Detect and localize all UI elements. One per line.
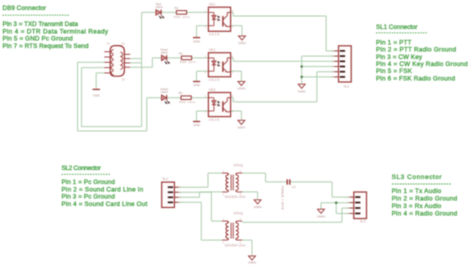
svg-text:LED2: LED2 — [156, 5, 164, 9]
svg-text:Pin 3 = Rx Audio: Pin 3 = Rx Audio — [392, 203, 442, 210]
svg-text:X1: X1 — [107, 42, 111, 46]
wire DTR-CTS loopback — [82, 63, 142, 127]
supply GND5 below TR2 — [248, 256, 256, 265]
svg-text:SL2: SL2 — [162, 177, 168, 181]
wire SL2 pin4 to TR2 bottom — [175, 202, 222, 240]
svg-text:600/600 ohm: 600/600 ohm — [225, 243, 246, 247]
svg-text:R1: R1 — [179, 51, 183, 55]
wire OK2 collector to SL1 pin3 — [231, 58, 339, 61]
LED LED3 green row3 — [160, 87, 169, 103]
ground GND below OK3 — [193, 122, 201, 128]
supply GND2 radio ground SL1 — [298, 84, 306, 93]
svg-text:GND3: GND3 — [238, 87, 246, 91]
supply GND4 near SL3 — [317, 209, 325, 218]
wire C1 to SL3 pin1 — [290, 182, 353, 197]
net label text block SL3 — [392, 174, 458, 217]
svg-text:Pin 4 = CW Key Radio Ground: Pin 4 = CW Key Radio Ground — [376, 61, 468, 68]
svg-text:SL1: SL1 — [344, 84, 350, 88]
ground GND below OK2 — [193, 82, 201, 88]
svg-text:GND: GND — [193, 123, 201, 127]
svg-text:R3: R3 — [179, 91, 183, 95]
capacitor C1 .1uf/250v — [281, 179, 296, 211]
svg-text:GND5: GND5 — [248, 261, 256, 265]
LED LED1 green row2 — [160, 47, 169, 63]
svg-text:Pin 1 = Pc Ground: Pin 1 = Pc Ground — [62, 179, 116, 186]
svg-text:Pin 2 = Radio Ground: Pin 2 = Radio Ground — [392, 195, 458, 202]
connector SL3 — [347, 192, 366, 224]
svg-text:Pin 3 = Pc Ground: Pin 3 = Pc Ground — [62, 194, 116, 201]
svg-text:GND: GND — [93, 94, 101, 98]
svg-text:Pin 4 = Sound Card Line Out: Pin 4 = Sound Card Line Out — [62, 201, 148, 208]
svg-text:R2: R2 — [175, 6, 179, 10]
svg-text:Pin 5 = FSK: Pin 5 = FSK — [376, 68, 413, 75]
svg-text:G2: G2 — [122, 78, 126, 82]
svg-text:Pin 6 = FSK Radio Ground: Pin 6 = FSK Radio Ground — [376, 75, 455, 82]
transformer TR2 600/600 ohm — [222, 212, 245, 248]
wire SL3 pin4 ground tie — [336, 203, 353, 214]
svg-text:GND: GND — [193, 83, 201, 87]
svg-text:Pin 2 = PTT Radio Ground: Pin 2 = PTT Radio Ground — [376, 47, 456, 54]
svg-text:4N35: 4N35 — [209, 33, 220, 37]
node junction SL3 pin2 — [335, 201, 338, 204]
svg-text:560 ohm: 560 ohm — [179, 100, 195, 104]
svg-text:LED1: LED1 — [161, 50, 169, 54]
transformer TR1 600/600 ohm — [222, 164, 245, 200]
svg-text:600/600 ohm: 600/600 ohm — [225, 195, 246, 199]
node junction SL1 pin6 — [300, 76, 303, 79]
resistor R1 560 ohm — [179, 51, 196, 64]
svg-text:Pin 2 = Sound Card Line In: Pin 2 = Sound Card Line In — [62, 186, 144, 193]
connector X1 DB9 — [104, 42, 130, 82]
wire OK1 emitter to GND2 — [231, 26, 242, 36]
svg-text:GND6: GND6 — [254, 205, 262, 209]
wire DTR row2 feed — [130, 58, 208, 67]
wire OK3 cathode to GND — [197, 111, 209, 121]
wire SL2 pin3 to TR1 bottom — [175, 192, 222, 197]
resistor R3 560 ohm — [179, 91, 196, 104]
svg-text:G1: G1 — [122, 42, 126, 46]
svg-text:Pin 4 = Radio Ground: Pin 4 = Radio Ground — [392, 210, 458, 217]
svg-text:OK2: OK2 — [209, 48, 216, 52]
op-amp,optocoupler OK1 4N35 — [205, 3, 234, 37]
svg-text:Pin 5 = GND Pc Ground: Pin 5 = GND Pc Ground — [3, 36, 74, 43]
svg-text:OK3: OK3 — [209, 88, 216, 92]
wire SL3 pin2 to GND4 — [321, 203, 354, 210]
svg-text:Pin 4 = DTR Data Terminal Read: Pin 4 = DTR Data Terminal Ready — [3, 28, 109, 35]
wire OK3 collector to SL1 pin5 — [231, 72, 339, 102]
svg-text:GND1: GND1 — [298, 89, 306, 93]
svg-text:LED3: LED3 — [161, 90, 169, 94]
wire SL2 pin2 to TR2 top — [175, 192, 222, 221]
net label text block DB9 — [2, 5, 109, 50]
resistor R2 560 ohm — [174, 6, 190, 19]
supply GND2 radio ground OK1 — [238, 36, 246, 45]
svg-text:GND7: GND7 — [238, 126, 246, 130]
net label text block SL2 — [62, 165, 148, 208]
wire OK1 cathode to GND — [197, 26, 209, 38]
svg-text:560 ohm: 560 ohm — [180, 60, 196, 64]
net label text block SL1 — [376, 24, 468, 82]
supply GND2 radio ground OK2 — [238, 81, 246, 90]
wire OK2 cathode to GND — [197, 71, 209, 81]
wire TR2 secondary bottom to GND5 — [242, 240, 252, 256]
svg-text:.1uf / 250v: .1uf / 250v — [281, 185, 285, 212]
svg-text:Pin 1 = Tx Audio: Pin 1 = Tx Audio — [392, 188, 442, 195]
svg-text:560 ohm: 560 ohm — [174, 15, 190, 19]
wire OK3 emitter to GND2 — [231, 111, 242, 120]
svg-text:Pin 3 = CW Key: Pin 3 = CW Key — [376, 54, 423, 61]
connector SL2 — [162, 177, 182, 207]
wire OK1 collector to SL1 pin1 — [231, 12, 339, 51]
svg-text:SL3: SL3 — [360, 220, 366, 224]
node junction SL1 pin4 — [300, 65, 303, 68]
wire RTS row1 feed — [130, 12, 208, 63]
svg-text:KPHQ: KPHQ — [234, 164, 244, 168]
svg-text:GND: GND — [193, 39, 201, 43]
svg-text:Pin 3 = TXD Transmit Data: Pin 3 = TXD Transmit Data — [3, 21, 79, 28]
supply GND2 radio ground OK3 — [238, 120, 246, 129]
svg-text:Pin 7 = RTS Request To Send: Pin 7 = RTS Request To Send — [3, 43, 89, 50]
wire TR1 secondary bottom to GND6 — [242, 192, 258, 200]
ground GND below OK1 — [193, 38, 201, 44]
svg-text:GND4: GND4 — [317, 214, 325, 218]
wire SL2 pin1 to TR1 top — [175, 173, 222, 187]
supply GND6 below TR1 — [254, 200, 262, 209]
wire TR2 secondary top to SL3 pin3 — [242, 208, 354, 222]
svg-text:DB9 Connector: DB9 Connector — [3, 5, 47, 12]
svg-text:C1: C1 — [292, 185, 296, 189]
wire DB9 pin5 to GND — [96, 73, 104, 90]
svg-text:SL1 Connector: SL1 Connector — [376, 24, 418, 31]
svg-text:KPHQ: KPHQ — [234, 212, 244, 216]
op-amp,optocoupler OK2 4N35 — [205, 48, 234, 82]
svg-text:4N35: 4N35 — [209, 78, 220, 82]
svg-text:4N35: 4N35 — [209, 118, 220, 122]
svg-text:OK1: OK1 — [209, 3, 216, 7]
op-amp,optocoupler OK3 4N35 — [205, 88, 234, 122]
wire SL1 ground bus — [302, 56, 339, 84]
svg-text:SL2 Connector: SL2 Connector — [62, 165, 101, 172]
svg-text:GND2: GND2 — [238, 41, 246, 45]
LED LED2 red row1 — [156, 2, 164, 18]
svg-text:Pin 1 = PTT: Pin 1 = PTT — [376, 39, 412, 46]
connector SL1 — [332, 46, 351, 89]
wire TXD row3 feed — [78, 62, 209, 131]
wire OK2 emitter to GND2 — [231, 71, 242, 81]
ground GND pc below X1 — [93, 89, 101, 97]
wire TR1 secondary top to C1 — [242, 173, 287, 182]
svg-text:SL3 Connector: SL3 Connector — [392, 174, 443, 181]
